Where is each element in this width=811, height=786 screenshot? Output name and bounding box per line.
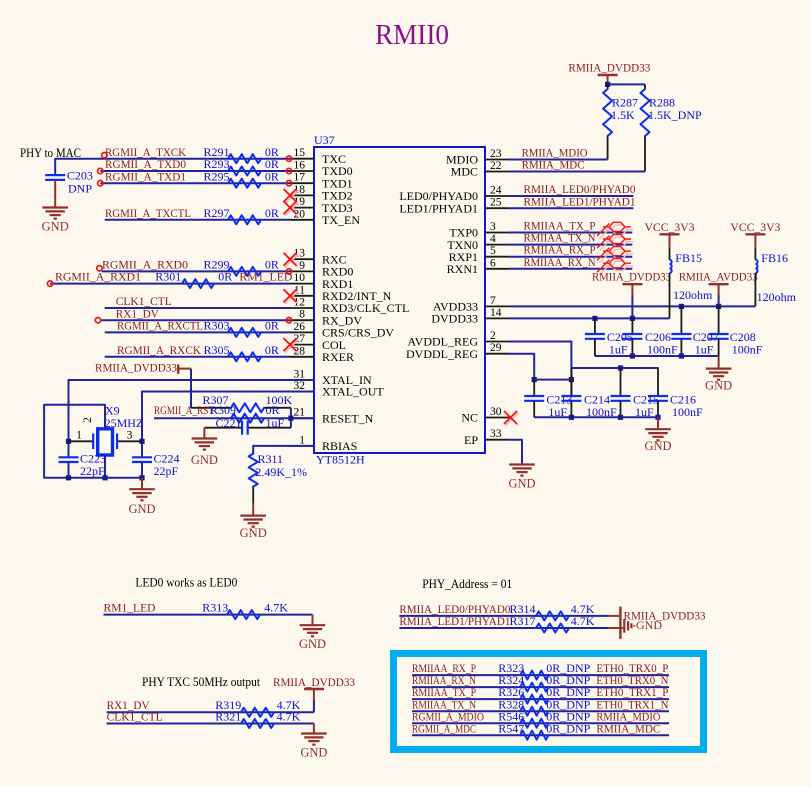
svg-text:RBIAS: RBIAS xyxy=(322,439,357,453)
wire R313 to GND xyxy=(312,615,314,626)
svg-text:GND: GND xyxy=(636,618,662,632)
junction C207 top xyxy=(679,304,684,309)
svg-text:21: 21 xyxy=(294,407,306,419)
resistor R324 0R_DNP xyxy=(498,673,590,691)
ground GND under C208 xyxy=(705,369,732,393)
junction node xtal pin1 xyxy=(66,439,71,444)
resistor R295 0R xyxy=(204,169,279,187)
wire FB15 to DVDD33 rail xyxy=(669,273,671,319)
resistor R303 0R xyxy=(204,319,279,337)
junction C208 top xyxy=(716,304,721,309)
svg-text:12: 12 xyxy=(294,297,306,309)
resistor R313 4.7K xyxy=(202,600,288,619)
wire net RGMII_A_RXD1 / RM1_LED xyxy=(50,283,290,285)
svg-text:FB15: FB15 xyxy=(675,251,702,265)
svg-text:32: 32 xyxy=(294,380,306,392)
crystal X9 25MHZ xyxy=(69,404,144,456)
wire net RX1_DV (bottom) xyxy=(107,711,314,713)
capacitor C213 1uF xyxy=(524,380,572,419)
capacitor C205 1uF xyxy=(585,318,633,356)
svg-text:22: 22 xyxy=(490,160,502,172)
svg-text:VCC_3V3: VCC_3V3 xyxy=(645,220,695,234)
svg-text:U37: U37 xyxy=(314,133,335,147)
svg-text:EP: EP xyxy=(464,433,478,447)
wire RMIIA_AVDD33 stem xyxy=(718,295,720,306)
svg-text:GND: GND xyxy=(300,746,327,760)
U37 pin 12 RXD3/CLK_CTL (left) xyxy=(290,297,409,316)
pin-end marker pin 9 xyxy=(286,269,291,274)
capacitor C208 100nF xyxy=(709,306,763,356)
svg-text:0R: 0R xyxy=(266,403,280,417)
wire crystal bottom stub xyxy=(104,455,106,478)
ground GND under R321 xyxy=(300,734,327,760)
U37 pin 15 TXC (left) xyxy=(290,147,346,166)
svg-text:120ohm: 120ohm xyxy=(673,288,713,302)
no-connect X pin 13 xyxy=(284,253,299,268)
wire R307 to pin21 node xyxy=(290,408,292,428)
wire TXCK to C203 xyxy=(55,159,290,175)
svg-text:9: 9 xyxy=(299,260,305,272)
wire net RGMII_A_TXCTL xyxy=(105,219,290,221)
svg-text:RGMII_A_TXCTL: RGMII_A_TXCTL xyxy=(105,206,191,220)
svg-text:1.5K_DNP: 1.5K_DNP xyxy=(648,108,702,122)
wire net CLK1_CTL xyxy=(105,307,290,309)
resistor R328 0R_DNP xyxy=(498,697,590,715)
junction pin21 xyxy=(288,416,293,421)
wire rail to GND xyxy=(141,478,143,489)
wire net RGMII_A_RST pin21 xyxy=(154,417,314,419)
svg-text:RMIIAA_RX_N: RMIIAA_RX_N xyxy=(524,255,596,269)
wire net CLK1_CTL (bottom) xyxy=(107,723,314,725)
wire R321 to GND xyxy=(313,724,315,734)
svg-text:RXN1: RXN1 xyxy=(447,262,478,276)
junction rail1 C206 xyxy=(630,353,635,358)
svg-text:PHY to MAC: PHY to MAC xyxy=(20,145,81,160)
capacitor C207 1uF xyxy=(671,306,718,356)
svg-text:5: 5 xyxy=(490,245,496,257)
svg-text:RGMII_A_MDC: RGMII_A_MDC xyxy=(412,721,476,735)
svg-text:RGMII_A_RXCK: RGMII_A_RXCK xyxy=(117,343,201,357)
capacitor C221 1uF xyxy=(204,416,291,435)
svg-text:22pF: 22pF xyxy=(80,464,105,478)
U37 pin 3 TXP0 (right) xyxy=(449,221,509,240)
wire XTAL_IN pin31 xyxy=(69,380,315,457)
svg-text:GND: GND xyxy=(42,220,69,234)
wire net RGMII_A_TXD0 xyxy=(100,170,290,172)
capacitor C214 100nF xyxy=(561,368,617,419)
U37 pin 30 NC (right) xyxy=(461,406,509,425)
resistor R323 0R_DNP xyxy=(498,661,590,679)
U37 pin 24 LED0/PHYAD0 (right) xyxy=(399,185,509,204)
svg-text:29: 29 xyxy=(490,342,502,354)
wire rail1 to GND xyxy=(718,356,720,369)
svg-text:0R: 0R xyxy=(265,169,279,183)
U37 pin 8 RX_DV (left) xyxy=(290,309,362,328)
resistor R547 0R_DNP xyxy=(498,721,590,739)
ferrite bead FB16 120ohm xyxy=(755,248,796,304)
U37 pin 14 DVDD33 (right) xyxy=(431,307,509,326)
svg-text:R317: R317 xyxy=(510,614,536,628)
U37 pin 11 RXD2/INT_N (left) xyxy=(290,284,392,303)
svg-text:R295: R295 xyxy=(204,169,230,183)
no-connect X pin 19 xyxy=(284,201,299,216)
svg-text:0R: 0R xyxy=(265,206,279,220)
wire xtal bottom rail xyxy=(44,477,142,479)
ground GND under R313 xyxy=(299,625,326,651)
svg-text:4.7K: 4.7K xyxy=(277,710,301,724)
U37 pin 6 RXN1 (right) xyxy=(447,257,509,276)
svg-text:28: 28 xyxy=(294,345,306,357)
svg-text:RMIIA_MDC: RMIIA_MDC xyxy=(522,158,585,172)
svg-text:LED0 works as LED0: LED0 works as LED0 xyxy=(135,575,237,590)
resistor R317 4.7K xyxy=(510,614,595,633)
resistor R287 1.5K xyxy=(603,84,638,159)
junction C205 top xyxy=(592,316,597,321)
pin-end marker xyxy=(286,156,291,161)
svg-text:DVDDL_REG: DVDDL_REG xyxy=(406,347,478,361)
pin-end marker pin 8 xyxy=(286,318,291,323)
resistor R321 4.7K xyxy=(215,710,300,728)
U37 pin 19 TXD3 (left) xyxy=(290,196,353,215)
svg-text:RGMII_A_RXD1: RGMII_A_RXD1 xyxy=(55,270,141,284)
capacitor C215 1uF xyxy=(611,368,660,419)
unconnected wire-end marker RXD1 xyxy=(47,281,52,286)
wire rail2 to GND xyxy=(657,417,659,429)
wire net RMIIA_LED0/PHYAD0 (bottom) xyxy=(399,615,608,617)
U37 pin 18 TXD2 (left) xyxy=(290,184,353,203)
resistor R309 0R xyxy=(210,403,280,423)
junction pin2-C214 xyxy=(569,377,574,382)
svg-text:C203: C203 xyxy=(67,169,93,183)
power RMIIA_DVDD33 (xtal area) xyxy=(95,361,191,375)
svg-text:RGMII_A_RST: RGMII_A_RST xyxy=(154,403,215,417)
wire net RMIIA_LED1/PHYAD1 (bottom) xyxy=(399,627,608,629)
U37 pin 13 RXC (left) xyxy=(290,248,347,267)
svg-text:10: 10 xyxy=(294,272,306,284)
capacitor C223 22pF xyxy=(59,452,107,478)
svg-text:LED1/PHYAD1: LED1/PHYAD1 xyxy=(399,201,478,215)
svg-text:RGMII_A_TXD1: RGMII_A_TXD1 xyxy=(105,169,186,183)
wire net RGMII_A_TXD1 xyxy=(100,182,290,184)
svg-text:TX_EN: TX_EN xyxy=(322,213,360,227)
wire net RMIIA_LED0/PHYAD0 xyxy=(509,195,633,197)
svg-text:1uF: 1uF xyxy=(266,416,285,430)
wire net RMIIAA_TX_N to ETH0_TRX1_N xyxy=(412,710,669,712)
svg-text:100nF: 100nF xyxy=(672,405,703,419)
svg-text:RESET_N: RESET_N xyxy=(322,411,374,425)
svg-text:RMIIA_LED1/PHYAD1: RMIIA_LED1/PHYAD1 xyxy=(524,194,636,208)
svg-text:26: 26 xyxy=(294,321,306,333)
U37 pin 25 LED1/PHYAD1 (right) xyxy=(399,197,509,216)
svg-text:100nF: 100nF xyxy=(732,343,763,357)
junction rail1 C207 xyxy=(679,353,684,358)
U37 pin 17 TXD1 (left) xyxy=(290,172,353,191)
wire DVDDL_REG pin29 xyxy=(509,354,571,380)
U37 pin 28 RXER (left) xyxy=(290,345,354,364)
resistor R319 4.7K xyxy=(215,698,300,717)
svg-text:R301: R301 xyxy=(155,270,181,284)
svg-text:2: 2 xyxy=(490,330,496,342)
ground GND (rotated, bottom right) xyxy=(608,618,662,633)
svg-text:RXER: RXER xyxy=(322,350,354,364)
U37 pin 5 RXP1 (right) xyxy=(449,245,509,264)
resistor R301 0R xyxy=(155,270,232,288)
svg-text:GND: GND xyxy=(191,453,218,467)
svg-text:23: 23 xyxy=(490,148,502,160)
svg-text:3: 3 xyxy=(127,430,133,442)
resistor R314 4.7K xyxy=(510,602,595,621)
svg-text:R297: R297 xyxy=(204,206,230,220)
wire net RM1_LED xyxy=(104,614,313,616)
svg-text:DNP: DNP xyxy=(68,182,92,196)
wire net RGMII_A_RXCK xyxy=(105,356,290,358)
svg-text:RMIIA_DVDD33: RMIIA_DVDD33 xyxy=(592,270,671,284)
svg-text:20: 20 xyxy=(294,208,306,220)
wire R311 to GND xyxy=(252,487,254,503)
svg-text:33: 33 xyxy=(490,428,502,440)
svg-text:100nF: 100nF xyxy=(647,343,678,357)
U37 pin 31 XTAL_IN (left) xyxy=(290,369,372,388)
resistor R293 0R xyxy=(204,157,279,175)
wire C224 lead to rail xyxy=(141,462,143,478)
wire net RMIIA_LED1/PHYAD1 xyxy=(509,207,633,209)
resistor R297 0R xyxy=(204,206,279,224)
svg-text:R321: R321 xyxy=(215,710,241,724)
capacitor C224 22pF xyxy=(132,452,180,478)
svg-text:0R: 0R xyxy=(265,343,279,357)
svg-text:4.7K: 4.7K xyxy=(264,600,288,614)
no-connect X pin 30 xyxy=(504,411,519,426)
ground GND under C221 xyxy=(191,439,218,468)
svg-text:0R_DNP: 0R_DNP xyxy=(546,721,590,735)
resistor R305 0R xyxy=(204,343,279,361)
svg-text:0R: 0R xyxy=(265,319,279,333)
svg-text:GND: GND xyxy=(705,379,732,393)
capacitor C216 100nF xyxy=(648,368,703,419)
wire AVDD33 rail pin7 xyxy=(509,305,755,307)
U37 pin 20 TX_EN (left) xyxy=(290,208,360,227)
wire XTAL_OUT pin32 xyxy=(142,392,314,458)
svg-text:DVDD33: DVDD33 xyxy=(431,312,478,326)
svg-text:15: 15 xyxy=(294,147,306,159)
svg-text:CLK1_CTL: CLK1_CTL xyxy=(107,710,163,724)
wire net RMIIA_MDIO xyxy=(509,159,608,161)
wire RMIIA_DVDD33 down to R307 xyxy=(190,369,192,408)
wire net RGMII_A_RXCTL xyxy=(105,331,290,333)
wire net RMIIAA_RX_P xyxy=(509,256,632,258)
capacitor C203 xyxy=(45,169,93,196)
wire C223 lead to rail xyxy=(68,462,70,478)
wire pin2 branch down xyxy=(570,368,572,396)
svg-text:1: 1 xyxy=(76,430,82,442)
svg-text:RMIIA_LED1/PHYAD1: RMIIA_LED1/PHYAD1 xyxy=(399,614,510,628)
U37 pin 7 AVDD33 (right) xyxy=(433,295,509,314)
svg-text:1.5K: 1.5K xyxy=(611,108,635,122)
svg-text:R305: R305 xyxy=(204,343,230,357)
diff-pair marker RMIIAA_TX_P xyxy=(597,222,633,238)
no-connect X pin 18 xyxy=(284,189,299,204)
wire net RGMII_A_MDIO to RMIIA_MDIO xyxy=(412,722,669,724)
svg-text:RGMII_A_RXCTL: RGMII_A_RXCTL xyxy=(117,319,203,333)
svg-text:RMIIA_MDC: RMIIA_MDC xyxy=(596,721,660,735)
svg-text:25: 25 xyxy=(490,197,502,209)
svg-text:RM1_LED: RM1_LED xyxy=(239,270,292,284)
svg-text:24: 24 xyxy=(490,185,502,197)
power VCC_3V3 (FB15) xyxy=(645,220,695,248)
wire FB16 to AVDD33 rail xyxy=(754,273,756,307)
U37 pin 9 RXD0 (left) xyxy=(290,260,353,279)
svg-text:RMIIA_DVDD33: RMIIA_DVDD33 xyxy=(568,61,650,75)
wire net RMIIAA_TX_P to ETH0_TRX1_P xyxy=(412,698,669,700)
svg-text:30: 30 xyxy=(490,406,502,418)
no-connect X pin 11 xyxy=(284,289,299,304)
ferrite bead FB15 120ohm xyxy=(670,248,714,302)
resistor R299 0R xyxy=(204,258,279,276)
wire RMIIA_DVDD33 stem xyxy=(631,295,633,318)
junction node xtal pin3 xyxy=(139,439,144,444)
diff-pair marker RMIIAA_RX_N xyxy=(597,259,633,275)
wire net RMIIAA_RX_N to ETH0_TRX0_N xyxy=(412,686,669,688)
U37 pin 4 TXN0 (right) xyxy=(447,233,509,252)
pin-end marker xyxy=(286,181,291,186)
pin-end marker xyxy=(286,168,291,173)
wire net RGMII_A_RXD0 xyxy=(102,270,290,272)
svg-text:C221: C221 xyxy=(216,416,242,430)
svg-text:31: 31 xyxy=(294,369,306,381)
svg-text:NC: NC xyxy=(461,411,478,425)
svg-text:1uF: 1uF xyxy=(609,343,628,357)
resistor R307 100K xyxy=(191,393,293,413)
ground GND under C216 xyxy=(644,429,671,453)
U37 pin 22 MDC (right) xyxy=(451,160,509,179)
wire net RMIIAA_TX_P xyxy=(509,232,632,234)
junction rail2 C216 xyxy=(655,415,660,420)
wire RBIAS pin1 xyxy=(253,446,314,454)
junction rail-case xyxy=(102,475,107,480)
wire AVDDL_REG pin2 xyxy=(509,342,658,369)
svg-text:3: 3 xyxy=(490,221,496,233)
svg-text:GND: GND xyxy=(508,477,535,491)
resistor R288 1.5K_DNP xyxy=(641,84,702,171)
U37 pin 21 RESET_N (left) xyxy=(290,407,374,426)
unconnected wire-end marker xyxy=(98,168,103,173)
junction rail-C223 xyxy=(66,475,71,480)
svg-text:VCC_3V3: VCC_3V3 xyxy=(730,220,780,234)
resistor R291 0R xyxy=(204,145,279,163)
ground GND under R311 xyxy=(240,516,267,540)
U37 pin 32 XTAL_OUT (left) xyxy=(290,380,384,399)
junction rail2 C215 xyxy=(618,415,623,420)
ground GND under C203 xyxy=(42,208,69,234)
U37 pin 33 EP (right) xyxy=(464,428,509,447)
U37 pin 26 CRS/CRS_DV (left) xyxy=(290,321,394,340)
svg-text:8: 8 xyxy=(299,309,305,321)
svg-text:0R: 0R xyxy=(218,270,232,284)
svg-text:22pF: 22pF xyxy=(154,464,179,478)
U37 pin 23 MDIO (right) xyxy=(446,148,509,167)
power RMIIA_DVDD33 (rail) xyxy=(592,270,671,295)
wire net RGMII_A_MDC to RMIIA_MDC xyxy=(412,734,669,736)
U37 pin 16 TXD0 (left) xyxy=(290,160,353,179)
ground GND under crystal xyxy=(128,489,155,516)
wire net RX1_DV xyxy=(100,319,290,321)
svg-text:14: 14 xyxy=(490,307,502,319)
U37 pin 27 COL (left) xyxy=(290,333,346,352)
svg-text:XTAL_OUT: XTAL_OUT xyxy=(322,385,384,399)
wire net RMIIAA_RX_N xyxy=(509,268,632,270)
wire caps bottom rail 1 xyxy=(595,355,719,357)
wire crystal case loop xyxy=(44,405,105,478)
svg-text:120ohm: 120ohm xyxy=(757,290,797,304)
junction pin2-C215 xyxy=(618,365,623,370)
svg-text:GND: GND xyxy=(299,637,326,651)
no-connect X pin 27 xyxy=(284,338,299,353)
diff-pair marker RMIIAA_RX_P xyxy=(597,247,633,263)
svg-text:RMIIA_AVDD33: RMIIA_AVDD33 xyxy=(679,270,758,284)
svg-text:1uF: 1uF xyxy=(695,343,714,357)
svg-text:2: 2 xyxy=(82,417,94,423)
junction rail2 C214 xyxy=(569,415,574,420)
wire C221 to GND xyxy=(203,428,205,439)
svg-text:4: 4 xyxy=(490,233,496,245)
capacitor C206 100nF xyxy=(622,318,678,356)
svg-text:FB16: FB16 xyxy=(761,251,788,265)
svg-text:17: 17 xyxy=(294,172,306,184)
U37 pin 1 RBIAS (left) xyxy=(290,434,357,453)
svg-text:GND: GND xyxy=(240,526,267,540)
resistor R546 0R_DNP xyxy=(498,709,590,727)
svg-text:PHY_Address = 01: PHY_Address = 01 xyxy=(422,576,512,591)
wire net RMIIAA_RX_P to ETH0_TRX0_P xyxy=(412,674,669,676)
highlight box (cyan) xyxy=(394,654,704,750)
U37 pin 29 DVDDL_REG (right) xyxy=(406,342,509,361)
svg-text:YT8512H: YT8512H xyxy=(316,453,365,467)
wire EP pin33 to GND xyxy=(509,440,522,463)
power RMIIA_DVDD33 (bottom) xyxy=(273,675,355,700)
svg-text:PHY TXC 50MHz output: PHY TXC 50MHz output xyxy=(142,674,260,689)
junction rail-C224 xyxy=(139,475,144,480)
svg-text:GND: GND xyxy=(644,439,671,453)
unconnected wire-end marker RX1_DV xyxy=(95,318,100,323)
svg-text:RMIIA_DVDD33: RMIIA_DVDD33 xyxy=(95,361,177,375)
svg-text:RM1_LED: RM1_LED xyxy=(104,600,156,614)
power VCC_3V3 (FB16) xyxy=(730,220,780,248)
svg-text:6: 6 xyxy=(490,257,496,269)
svg-text:R303: R303 xyxy=(204,319,230,333)
junction pin29-C213 xyxy=(532,377,537,382)
U37 pin 10 RXD1 (left) xyxy=(290,272,353,291)
wire DVDD33 rail pin14 xyxy=(509,317,670,319)
svg-text:1: 1 xyxy=(299,434,305,446)
U37 pin 2 AVDDL_REG (right) xyxy=(408,330,509,349)
marker near RGMII_A_TXCK xyxy=(102,153,107,158)
wire caps bottom rail 2 xyxy=(534,416,658,418)
wire net RMIIAA_TX_N xyxy=(509,244,632,246)
svg-text:RMIIA_DVDD33: RMIIA_DVDD33 xyxy=(273,675,355,689)
wire pullup top rail xyxy=(608,83,645,85)
svg-text:MDC: MDC xyxy=(451,165,478,179)
wire power to R319 xyxy=(313,700,315,712)
resistor R326 0R_DNP xyxy=(498,685,590,703)
junction C206 top xyxy=(630,316,635,321)
IC U37 YT8512H body xyxy=(314,147,485,453)
svg-text:4.7K: 4.7K xyxy=(571,614,595,628)
wire net RMIIA_MDC xyxy=(509,171,645,173)
junction pullup top xyxy=(605,82,610,87)
svg-text:R313: R313 xyxy=(202,600,228,614)
unconnected wire-end marker xyxy=(98,181,103,186)
svg-text:7: 7 xyxy=(490,295,496,307)
